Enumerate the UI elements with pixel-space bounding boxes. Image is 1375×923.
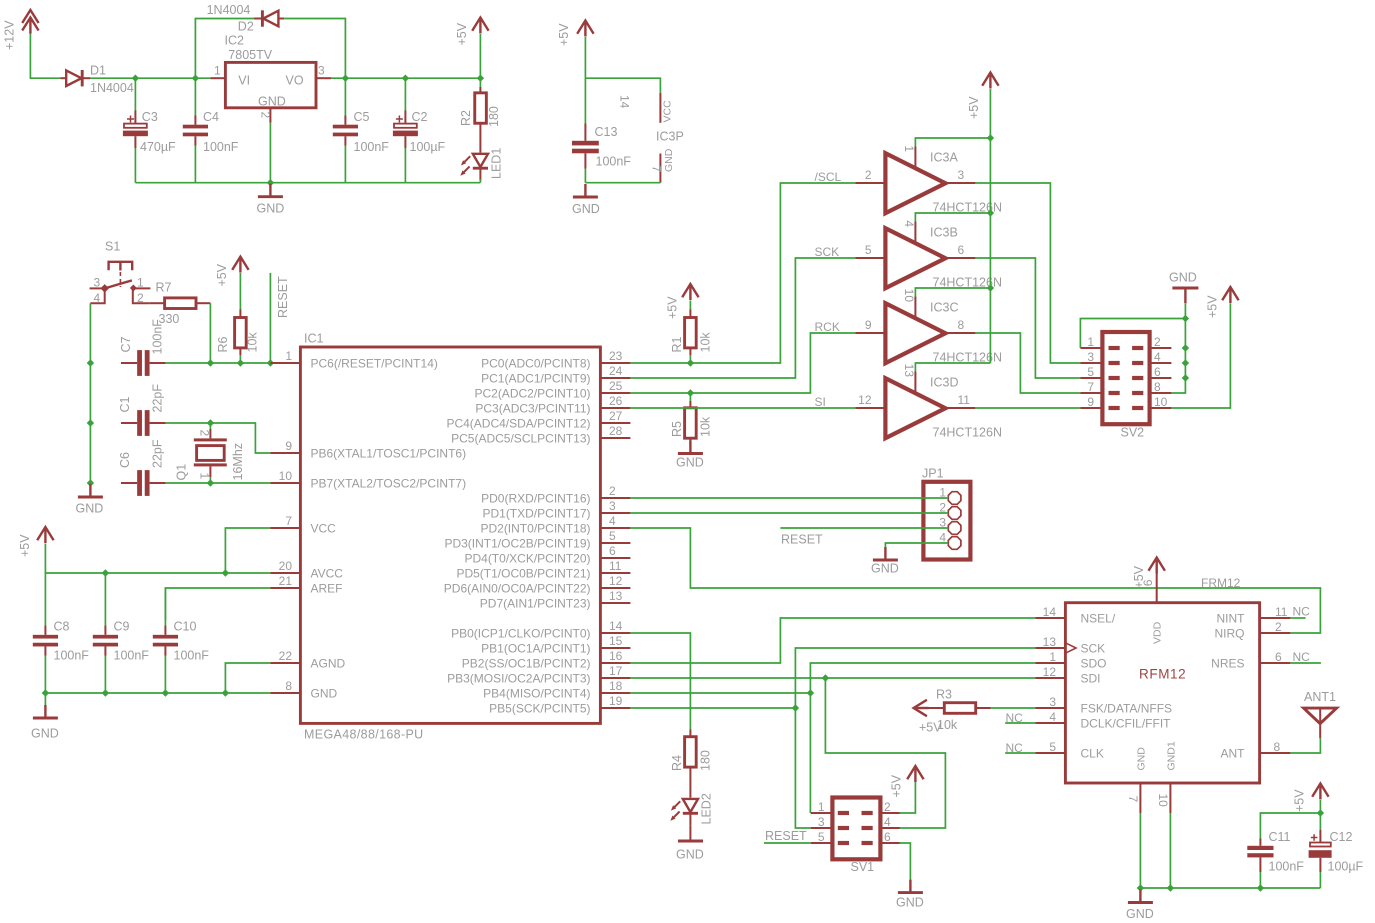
svg-text:GND: GND	[871, 562, 899, 576]
SV2 pin 6	[1132, 365, 1171, 380]
svg-text:1: 1	[1087, 335, 1094, 349]
IC1 pin 24 PC1(ADC1/PCINT9)	[481, 364, 630, 386]
svg-text:JP1: JP1	[922, 467, 944, 481]
wire SV1 pin 2 to +5V	[900, 782, 916, 813]
svg-text:10k: 10k	[937, 718, 958, 732]
+5V symbol (R1)	[666, 284, 699, 319]
svg-text:+5V: +5V	[18, 534, 32, 557]
svg-text:11: 11	[1275, 605, 1288, 619]
node junction gnd C8	[42, 689, 49, 696]
wire SCK to RFM12 SCK	[795, 648, 1035, 708]
+5V symbol (RFM12)	[1132, 558, 1165, 589]
svg-text:VI: VI	[238, 74, 250, 88]
svg-text:VO: VO	[286, 74, 304, 88]
svg-text:9: 9	[285, 439, 292, 453]
IC1 pin 8 GND	[270, 679, 337, 701]
IC1 pin 23 PC0(ADC0/PCINT8)	[481, 349, 630, 371]
wire IC3A out to SV2 pin 3	[975, 183, 1080, 363]
svg-text:2: 2	[1154, 335, 1161, 349]
svg-text:100µF: 100µF	[1328, 860, 1364, 874]
svg-text:1: 1	[285, 349, 292, 363]
svg-text:8: 8	[958, 318, 965, 332]
svg-text:+5V: +5V	[215, 263, 229, 286]
+5V symbol (R6)	[215, 257, 249, 310]
IC1 pin 28 PC5(ADC5/SCLPCINT13)	[451, 424, 630, 446]
ground rail (RFM12)	[1140, 887, 1320, 889]
JP1 pin 2	[939, 501, 961, 520]
diode D2 1N4004 (over regulator)	[195, 3, 345, 78]
svg-text:ANT: ANT	[1221, 747, 1246, 761]
svg-text:10: 10	[279, 469, 293, 483]
resistor R5 10k	[670, 393, 713, 450]
svg-text:PB2(SS/OC1B/PCINT2): PB2(SS/OC1B/PCINT2)	[462, 657, 591, 671]
IC3D enable pin 13	[902, 363, 991, 392]
IC1 pin 7 VCC	[270, 514, 336, 536]
wire MISO to RFM12 SDO	[810, 663, 1035, 693]
svg-text:NINT: NINT	[1217, 612, 1246, 626]
svg-text:PC3(ADC3/PCINT11): PC3(ADC3/PCINT11)	[475, 402, 590, 416]
IC3A enable pin 1	[902, 138, 991, 167]
SV2 pin 5	[1080, 365, 1119, 380]
svg-text:+5V: +5V	[1206, 295, 1220, 318]
+12V supply symbol	[3, 10, 39, 50]
IC1 pin 19 PB5(SCK/PCINT5)	[489, 694, 630, 716]
node junction enable IC3B	[987, 209, 994, 216]
svg-text:100nF: 100nF	[354, 140, 390, 154]
svg-text:3: 3	[609, 499, 616, 513]
RFM12 GND1 pin 10	[1156, 741, 1178, 888]
IC3C enable pin 10	[902, 288, 991, 317]
SV2 pin 7	[1080, 380, 1119, 395]
buffer IC3D 74HCT126N	[885, 376, 1002, 440]
svg-text:100nF: 100nF	[1269, 860, 1305, 874]
wire +5V down to C13	[584, 37, 586, 124]
svg-text:PC0(ADC0/PCINT8): PC0(ADC0/PCINT8)	[481, 357, 590, 371]
node junction MOSI/SV1	[822, 674, 829, 681]
IC3B output pin 6	[945, 243, 975, 258]
svg-text:7: 7	[650, 166, 664, 173]
svg-text:C1: C1	[118, 396, 132, 412]
wire PC0 //SCL net	[630, 183, 855, 363]
wire ANT pin 8 to antenna	[1290, 738, 1320, 753]
IC1 pin 2 PD0(RXD/PCINT16)	[481, 484, 630, 506]
svg-text:6: 6	[884, 830, 891, 844]
svg-text:FSK/DATA/NFFS: FSK/DATA/NFFS	[1081, 702, 1173, 716]
IC1 pin 22 AGND	[270, 649, 345, 671]
wire C7 to IC1 pin 1	[166, 362, 271, 364]
capacitor C6 22pF	[118, 439, 166, 496]
svg-text:7: 7	[285, 514, 292, 528]
svg-text:28: 28	[609, 424, 623, 438]
svg-text:1: 1	[198, 473, 212, 480]
svg-text:GND: GND	[1136, 747, 1148, 771]
svg-text:+12V: +12V	[3, 20, 17, 50]
IC1 pin 16 PB2(SS/OC1B/PCINT2)	[462, 649, 631, 671]
IC1 pin 9 PB6(XTAL1/TOSC1/PCINT6)	[270, 439, 466, 461]
IC3P VCC pin 14	[618, 93, 674, 123]
svg-text:100nF: 100nF	[151, 319, 165, 355]
IC1 pin 15 PB1(OC1A/PCINT1)	[481, 634, 630, 656]
node junction R6	[237, 359, 244, 366]
+5V symbol (R3, pointing left)	[914, 700, 943, 735]
wire PC2 RCK net	[630, 333, 855, 393]
buffer IC3B 74HCT126N	[885, 226, 1002, 290]
svg-text:GND1: GND1	[1166, 741, 1178, 770]
svg-text:18: 18	[609, 679, 623, 693]
svg-text:AREF: AREF	[311, 582, 343, 596]
buffer IC3A 74HCT126N	[885, 151, 1002, 215]
SV2 pin 3	[1080, 350, 1119, 365]
RFM12 GND pin 7	[1126, 747, 1148, 888]
svg-text:PC1(ADC1/PCINT9): PC1(ADC1/PCINT9)	[481, 372, 590, 386]
svg-text:11: 11	[609, 559, 622, 573]
wire R7 to reset net	[209, 303, 211, 363]
svg-text:1: 1	[137, 276, 144, 290]
node junction MISO	[807, 689, 814, 696]
IC1 pin 17 PB3(MOSI/OC2A/PCINT3)	[447, 664, 630, 686]
svg-text:PD6(AIN0/OC0A/PCINT22): PD6(AIN0/OC0A/PCINT22)	[444, 582, 591, 596]
svg-text:25: 25	[609, 379, 623, 393]
IC1 pin 3 PD1(TXD/PCINT17)	[482, 499, 630, 521]
wire branch to IC3P VCC pin	[585, 78, 660, 93]
SV1 pin 2	[862, 800, 900, 815]
svg-text:LED1: LED1	[490, 148, 504, 179]
svg-text:R7: R7	[156, 281, 172, 295]
svg-text:PB6(XTAL1/TOSC1/PCINT6): PB6(XTAL1/TOSC1/PCINT6)	[311, 447, 467, 461]
wire SV2 pin 10 to +5V	[1171, 303, 1230, 408]
wire C6 to XTAL2	[166, 482, 271, 484]
node junction C1 left	[87, 419, 94, 426]
svg-text:8: 8	[285, 679, 292, 693]
svg-text:R4: R4	[670, 755, 684, 771]
IC1 pin 5 PD3(INT1/OC2B/PCINT19)	[444, 529, 630, 551]
capacitor C13 100nF	[572, 124, 631, 183]
svg-text:PC2(ADC2/PCINT10): PC2(ADC2/PCINT10)	[474, 387, 590, 401]
ground symbol (RFM12)	[1126, 890, 1154, 922]
svg-text:4: 4	[1049, 710, 1056, 724]
IC1 pin 4 PD2(INT0/PCINT18)	[480, 514, 630, 536]
svg-text:VCC: VCC	[311, 522, 337, 536]
svg-text:12: 12	[858, 393, 872, 407]
svg-text:22pF: 22pF	[151, 384, 165, 413]
IC3C input pin 9 (RCK)	[815, 318, 886, 334]
svg-text:C6: C6	[118, 452, 132, 468]
connector JP1	[922, 467, 970, 560]
RFM12 pin 1 SDO	[1035, 650, 1106, 671]
node junction C4/D2	[192, 75, 199, 82]
svg-text:IC3P: IC3P	[656, 130, 684, 144]
svg-text:180: 180	[699, 750, 713, 771]
svg-text:5: 5	[1049, 740, 1056, 754]
wire PD1 to JP1 pin 2	[630, 512, 948, 514]
wire JP1 pin 4 to GND	[885, 543, 948, 547]
voltage regulator IC2 7805TV	[225, 34, 317, 109]
svg-text:D1: D1	[90, 64, 106, 78]
svg-text:PB1(OC1A/PCINT1): PB1(OC1A/PCINT1)	[481, 642, 590, 656]
svg-text:GND: GND	[676, 456, 704, 470]
wire AREF	[165, 588, 270, 621]
RFM12 pin 2 NIRQ	[1215, 620, 1291, 641]
IC2 pin 2 (GND)	[259, 108, 273, 183]
svg-text:14: 14	[618, 95, 632, 109]
wire RESET to JP1 pin 3	[780, 528, 948, 547]
ground rail (power section)	[135, 182, 480, 184]
node junction R2/+5V	[477, 75, 484, 82]
capacitor C3 470uF	[123, 78, 176, 183]
svg-text:4: 4	[884, 815, 891, 829]
svg-text:Q1: Q1	[175, 464, 189, 481]
node junction gnd AGND	[222, 689, 229, 696]
svg-text:2: 2	[198, 430, 212, 437]
svg-text:180: 180	[487, 106, 501, 127]
IC U1 box MEGA48/88/168-PU	[300, 332, 600, 742]
svg-text:PB3(MOSI/OC2A/PCINT3): PB3(MOSI/OC2A/PCINT3)	[447, 672, 590, 686]
svg-text:6: 6	[1275, 650, 1282, 664]
svg-text:15: 15	[609, 634, 623, 648]
SV1 pin 4	[862, 815, 900, 830]
switch S1	[90, 240, 151, 306]
node junction GND	[267, 179, 274, 186]
svg-text:PD5(T1/OC0B/PCINT21): PD5(T1/OC0B/PCINT21)	[456, 567, 590, 581]
buffer IC3C 74HCT126N	[885, 301, 1002, 365]
svg-text:1: 1	[214, 64, 221, 78]
node junction +5V caps	[1317, 809, 1324, 816]
svg-text:6: 6	[609, 544, 616, 558]
wire PB2 SS to RFM12 NSEL	[630, 618, 1035, 663]
svg-text:S1: S1	[105, 240, 120, 254]
svg-text:1: 1	[818, 800, 825, 814]
IC1 pin 26 PC3(ADC3/PCINT11)	[475, 394, 630, 416]
node junction C6 left	[87, 479, 94, 486]
svg-text:1N4004: 1N4004	[90, 81, 134, 95]
svg-text:6: 6	[958, 243, 965, 257]
svg-text:3: 3	[958, 168, 965, 182]
SV1 pin 6	[862, 830, 900, 845]
wire PD2 INT0 to RFM12 NIRQ	[630, 528, 1320, 633]
svg-text:24: 24	[609, 364, 623, 378]
svg-text:SI: SI	[815, 395, 826, 409]
connector SV2	[1102, 332, 1149, 440]
svg-text:C5: C5	[354, 110, 370, 124]
capacitor C5 100nF	[333, 78, 390, 183]
IC3A output pin 3	[945, 168, 975, 183]
connector SV1	[832, 798, 880, 875]
svg-text:26: 26	[609, 394, 623, 408]
svg-text:C11: C11	[1269, 830, 1291, 844]
IC1 pin 14 PB0(ICP1/CLKO/PCINT0)	[451, 619, 630, 641]
node junction R5	[687, 389, 694, 396]
svg-text:PB0(ICP1/CLKO/PCINT0): PB0(ICP1/CLKO/PCINT0)	[451, 627, 590, 641]
wire C1 to XTAL1	[166, 423, 271, 453]
svg-text:PD7(AIN1/PCINT23): PD7(AIN1/PCINT23)	[480, 597, 591, 611]
IC1 pin 27 PC4(ADC4/SDA/PCINT12)	[446, 409, 630, 431]
svg-text:NC: NC	[1293, 605, 1311, 619]
svg-text:PD0(RXD/PCINT16): PD0(RXD/PCINT16)	[481, 492, 590, 506]
svg-text:RCK: RCK	[815, 320, 840, 334]
SV2 pin 4	[1132, 350, 1171, 365]
wire MOSI branch to SV1 pin 4	[825, 678, 945, 828]
wire S1 pin2 to R7	[133, 288, 149, 303]
IC3B enable pin 4	[902, 213, 991, 242]
svg-text:22pF: 22pF	[151, 439, 165, 468]
wire SV1 pin 6 to GND	[900, 843, 911, 880]
svg-text:PB4(MISO/PCINT4): PB4(MISO/PCINT4)	[483, 687, 590, 701]
IC3D input pin 12 (SI)	[815, 393, 886, 409]
svg-text:RESET: RESET	[765, 829, 807, 843]
svg-text:LED2: LED2	[700, 793, 714, 824]
svg-text:14: 14	[609, 619, 623, 633]
svg-text:1: 1	[902, 145, 916, 152]
IC1 pin 1 PC6(/RESET/PCINT14)	[270, 349, 437, 371]
svg-text:RFM12: RFM12	[1139, 667, 1186, 682]
svg-text:C8: C8	[54, 620, 70, 634]
svg-text:NSEL/: NSEL/	[1081, 612, 1116, 626]
svg-text:4: 4	[902, 220, 916, 227]
wire SV2 pin 1 to GND	[1080, 319, 1185, 349]
svg-text:R6: R6	[216, 336, 230, 352]
svg-text:10: 10	[1156, 794, 1170, 808]
IC1 pin 6 PD4(T0/XCK/PCINT20)	[464, 544, 630, 566]
IC1 pin 18 PB4(MISO/PCINT4)	[483, 679, 630, 701]
svg-text:C4: C4	[203, 110, 219, 124]
svg-text:VCC: VCC	[662, 100, 674, 123]
JP1 pin 3	[939, 516, 961, 535]
wire AGND branch	[225, 663, 270, 693]
IC RFM12 box	[1065, 576, 1259, 783]
IC3D output pin 11	[945, 393, 975, 408]
wire gnd vertical (crystal section)	[89, 363, 91, 483]
IC1 pin 13 PD7(AIN1/PCINT23)	[480, 589, 631, 611]
IC1 pin 12 PD6(AIN0/OC0A/PCINT22)	[444, 574, 631, 596]
svg-text:16Mhz: 16Mhz	[231, 443, 245, 481]
RFM12 VDD pin 9	[1141, 573, 1164, 644]
RFM12 pin 8 ANT	[1221, 740, 1291, 761]
svg-text:12: 12	[609, 574, 623, 588]
node junction R7	[207, 359, 214, 366]
svg-text:11: 11	[958, 393, 971, 407]
node junction enable IC3C	[987, 284, 994, 291]
IC3P GND pin 7	[650, 148, 676, 182]
svg-text:/SCL: /SCL	[815, 170, 842, 184]
svg-text:SDI: SDI	[1081, 672, 1101, 686]
svg-text:IC3B: IC3B	[930, 226, 958, 240]
svg-text:R1: R1	[670, 336, 684, 352]
ground symbol (crystal)	[76, 484, 104, 516]
svg-text:10: 10	[1154, 395, 1168, 409]
svg-text:10k: 10k	[699, 416, 713, 437]
wire PB0 to R4	[630, 633, 690, 730]
node junction Q1 top	[207, 419, 214, 426]
RFM12 pin 14 NSEL/	[1035, 605, 1115, 626]
svg-text:+5V: +5V	[557, 23, 571, 46]
svg-text:SCK: SCK	[815, 245, 840, 259]
node junction VCC branch	[222, 569, 229, 576]
svg-text:ANT1: ANT1	[1304, 690, 1336, 704]
svg-text:PD1(TXD/PCINT17): PD1(TXD/PCINT17)	[482, 507, 590, 521]
IC1 pin 11 PD5(T1/OC0B/PCINT21)	[456, 559, 630, 581]
svg-text:19: 19	[609, 694, 623, 708]
svg-text:100µF: 100µF	[410, 140, 446, 154]
RESET net label (SV1 pin 5)	[764, 829, 811, 843]
svg-text:74HCT126N: 74HCT126N	[933, 426, 1002, 440]
svg-text:C12: C12	[1330, 830, 1353, 844]
svg-text:NC: NC	[1006, 741, 1024, 755]
+5V symbol (buffer enables)	[967, 73, 999, 364]
LED LED1	[460, 148, 503, 183]
SV2 pin 1	[1080, 335, 1119, 350]
SV1 pin 3	[811, 815, 849, 830]
wire PB4 MISO	[630, 692, 810, 694]
wire PB3 MOSI to RFM12 SDI	[630, 677, 1035, 679]
svg-text:100nF: 100nF	[174, 649, 210, 663]
ground symbol (LED2)	[676, 826, 704, 862]
svg-text:3: 3	[94, 276, 101, 290]
svg-text:GND: GND	[31, 727, 59, 741]
+5V symbol (regulator output)	[455, 18, 489, 79]
ground symbol (JP1)	[871, 547, 899, 576]
resistor R6 10k	[216, 310, 260, 364]
svg-text:3: 3	[1087, 350, 1094, 364]
svg-text:27: 27	[609, 409, 623, 423]
svg-text:16: 16	[609, 649, 623, 663]
ground rail (MCU)	[45, 692, 270, 694]
svg-text:MEGA48/88/168-PU: MEGA48/88/168-PU	[304, 728, 424, 742]
capacitor C4 100nF	[183, 78, 239, 183]
svg-text:+5V: +5V	[967, 96, 981, 119]
svg-text:6: 6	[1154, 365, 1161, 379]
svg-text:22: 22	[279, 649, 293, 663]
node junction C11 gnd	[1257, 884, 1264, 891]
IC3A input pin 2 (/SCL)	[815, 168, 886, 184]
wire VCC rail right	[345, 77, 480, 79]
svg-text:GND: GND	[896, 896, 924, 910]
IC3B input pin 5 (SCK)	[815, 243, 886, 259]
svg-text:C7: C7	[119, 336, 133, 352]
capacitor C2 100uF	[393, 78, 446, 183]
+5V symbol (RFM12 caps)	[1293, 784, 1329, 814]
ground symbol (R5)	[676, 441, 704, 470]
svg-text:IC2: IC2	[225, 34, 245, 48]
node junction rfm gnd	[1137, 884, 1144, 891]
node junction SV2 pin2	[1182, 344, 1189, 351]
LED LED2	[670, 793, 713, 826]
IC2 pin 3	[316, 64, 345, 79]
svg-text:4: 4	[1154, 350, 1161, 364]
svg-text:2: 2	[259, 112, 273, 119]
SV2 pin 10	[1132, 395, 1171, 410]
svg-text:C10: C10	[174, 620, 197, 634]
node junction C7 left	[87, 359, 94, 366]
crystal Q1 16Mhz	[175, 423, 246, 483]
node junction R1	[687, 359, 694, 366]
node junction gnd C10	[162, 689, 169, 696]
svg-text:21: 21	[279, 574, 293, 588]
svg-text:VDD: VDD	[1152, 621, 1164, 644]
svg-text:D2: D2	[238, 20, 254, 34]
svg-text:NIRQ: NIRQ	[1215, 627, 1245, 641]
wire AVCC rail	[45, 572, 270, 574]
node junction C2	[402, 75, 409, 82]
svg-text:R3: R3	[936, 688, 952, 702]
SV2 pin 2	[1132, 335, 1171, 350]
svg-text:100nF: 100nF	[114, 649, 150, 663]
RFM12 pin 4 DCLK/CFIL/FFIT	[1005, 710, 1171, 731]
wire PC1 SCK net	[630, 258, 855, 378]
ground symbol (MCU)	[31, 693, 59, 741]
svg-text:SV1: SV1	[851, 860, 875, 874]
svg-text:IC1: IC1	[304, 332, 324, 346]
wire S1 pin4 to C7 net	[90, 288, 104, 363]
